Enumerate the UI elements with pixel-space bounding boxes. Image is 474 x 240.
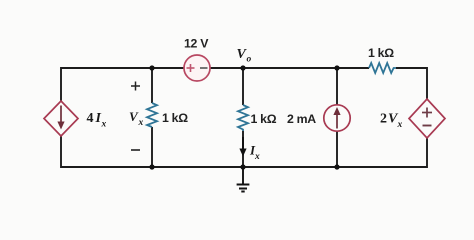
svg-text:12 V: 12 V — [184, 37, 209, 51]
label 4 Ix — [87, 111, 107, 130]
svg-text:o: o — [247, 55, 252, 65]
node Vo — [237, 47, 252, 65]
svg-text:1 kΩ: 1 kΩ — [251, 112, 277, 126]
svg-text:x: x — [254, 152, 260, 162]
wire top rail middle segment — [210, 67, 369, 69]
junction dot bottom Vx — [149, 164, 154, 169]
plus sign Vx — [131, 82, 140, 91]
junction dot bottom ground — [240, 164, 245, 169]
wire 2mA branch lower — [336, 131, 338, 167]
minus sign Vx — [131, 149, 140, 151]
wire bottom rail — [61, 166, 427, 168]
wire top rail left segment — [61, 67, 184, 69]
svg-text:4: 4 — [87, 111, 94, 126]
svg-text:2 mA: 2 mA — [287, 112, 316, 126]
wire left branch lower — [60, 136, 62, 168]
wire 2mA branch upper — [336, 68, 338, 105]
wire Vx branch upper — [151, 68, 153, 103]
svg-text:1 kΩ: 1 kΩ — [368, 46, 394, 60]
svg-text:x: x — [397, 120, 403, 130]
wire Vx branch lower — [151, 127, 153, 167]
voltage source 12V (circle) — [184, 55, 210, 81]
current source 2mA (circle) — [324, 105, 350, 131]
wire right branch upper — [426, 67, 428, 99]
label Ix — [249, 143, 260, 163]
junction dot top Vo — [240, 65, 245, 70]
current arrow Ix — [239, 137, 246, 157]
ground — [237, 167, 250, 192]
resistor 1k top right (horizontal zigzag) — [369, 63, 396, 73]
svg-text:2: 2 — [380, 112, 387, 127]
dependent current source 4Ix (diamond) — [44, 101, 78, 136]
label Vx — [129, 109, 144, 128]
wire right branch lower — [426, 138, 428, 168]
wire left branch upper — [60, 67, 62, 101]
svg-text:x: x — [138, 118, 144, 128]
svg-text:x: x — [101, 120, 107, 130]
resistor 1k middle (vertical zigzag) — [238, 105, 248, 131]
svg-text:V: V — [129, 109, 139, 124]
junction dot top 2mA — [334, 65, 339, 70]
svg-text:I: I — [95, 111, 102, 126]
resistor Vx 1k (vertical zigzag) — [147, 103, 157, 127]
svg-text:1 kΩ: 1 kΩ — [162, 111, 188, 125]
wire middle branch lower — [242, 131, 244, 167]
wire top rail right segment — [396, 67, 427, 69]
label 2 Vx — [380, 112, 403, 131]
dependent voltage source 2Vx (diamond) — [409, 99, 445, 138]
junction dot bottom 2mA — [334, 164, 339, 169]
wire middle branch upper — [242, 68, 244, 105]
junction dot top Vx — [149, 65, 154, 70]
